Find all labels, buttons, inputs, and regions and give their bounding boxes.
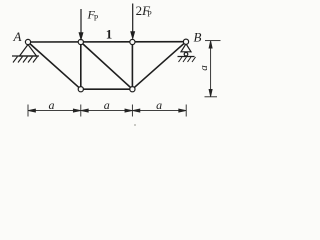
svg-text:A: A: [13, 29, 22, 44]
svg-text:1: 1: [106, 27, 113, 42]
svg-text:P: P: [147, 9, 152, 18]
svg-text:a: a: [49, 98, 55, 112]
svg-text:a: a: [156, 98, 162, 112]
svg-text:P: P: [94, 14, 99, 23]
svg-text:B: B: [194, 29, 202, 44]
svg-text:a: a: [198, 65, 210, 71]
svg-text:a: a: [104, 98, 110, 112]
